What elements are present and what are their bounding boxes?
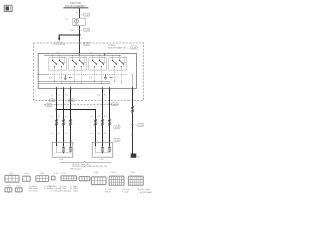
node: feed branch junction: [79, 34, 81, 36]
pin stubs at box bottom: [56, 87, 58, 89]
switch unit S3: [89, 55, 107, 70]
svg-text:B: B: [76, 12, 78, 14]
wire: feed drop: [79, 54, 81, 56]
switch unit S2: [69, 55, 87, 70]
svg-text:JUNCTION: JUNCTION: [70, 3, 82, 5]
tick on earth wire: [131, 134, 133, 136]
wire: fuse J-4 to junction node: [79, 26, 81, 35]
svg-text:5: 5: [71, 90, 72, 92]
svg-text:G : Green: G : Green: [30, 190, 38, 193]
svg-text:D-05: D-05: [111, 172, 116, 174]
dashed boundary: door harness: [44, 104, 120, 106]
contact mark: [49, 77, 51, 79]
node: power feed label (junction block): [63, 3, 88, 9]
contact arrow right: [109, 77, 113, 78]
svg-text:J-4: J-4: [65, 19, 69, 21]
splice squiggle: [131, 106, 134, 113]
svg-text:D-09: D-09: [115, 127, 119, 129]
splice squiggle: [108, 119, 111, 126]
ground (internal left): [64, 75, 67, 80]
mechanical link between switch knobs (dashed): [41, 74, 127, 76]
splice squiggle: [69, 119, 72, 126]
arrow: to other circuit: [58, 38, 61, 40]
connector C-32 (upper label): [83, 13, 89, 16]
node: shared wire junction: [56, 109, 58, 111]
switch unit S1: [49, 55, 67, 70]
wire: main switch to FR motor (G-4): [102, 88, 104, 146]
svg-text:GR-16: GR-16: [105, 191, 111, 193]
legend connector E-13 pictogram: [15, 188, 22, 192]
svg-text:D-05: D-05: [69, 100, 73, 102]
wire colour labels (lower): [51, 133, 107, 135]
svg-text:L-4: L-4: [51, 94, 54, 96]
svg-text:R-1: R-1: [104, 94, 107, 96]
wire: unit stub right: [80, 70, 82, 83]
pin numbers above motors: [57, 141, 111, 143]
splice squiggle: [101, 119, 104, 126]
connector label on earth wire: [131, 124, 134, 126]
svg-text:G-4: G-4: [97, 116, 100, 118]
splice squiggle: [55, 119, 58, 126]
svg-text:C-13: C-13: [139, 125, 143, 127]
wire: main switch to FL motor (G-1): [70, 88, 72, 146]
legend: bottom notes: [105, 188, 152, 194]
connector D-05 label (mid): [68, 99, 74, 102]
wire: unit stub left: [53, 70, 55, 81]
svg-text:BLOCK ASSEMBLY: BLOCK ASSEMBLY: [65, 5, 86, 8]
svg-text:TSB Revision: TSB Revision: [70, 169, 81, 171]
svg-text:G-4: G-4: [97, 133, 100, 135]
wire: internal drop to pin 1: [132, 75, 134, 89]
svg-text:D-05: D-05: [47, 105, 51, 107]
svg-text:D-09: D-09: [113, 104, 117, 106]
label: POWER WINDOW MAIN SWITCH / connector C-39: [108, 45, 137, 50]
wire: internal top bus: [44, 55, 121, 57]
wire: left edge tap: [38, 74, 49, 76]
svg-text:C-40: C-40: [24, 173, 29, 175]
legend connector E-10 pictogram: [5, 188, 12, 192]
svg-text:D-02: D-02: [94, 172, 99, 174]
svg-text:(L-4): (L-4): [70, 30, 75, 32]
contact mark: [89, 76, 91, 78]
wire colour labels (upper): [51, 94, 107, 96]
contact arrow left: [69, 77, 73, 78]
wire: crossover to FR motor pin 1: [57, 110, 96, 147]
power window motor C-43: [92, 142, 113, 157]
wire: main switch to FL motor (L-4): [56, 88, 58, 146]
svg-text:C-43: C-43: [115, 140, 119, 142]
svg-text:C-40: C-40: [59, 159, 64, 161]
svg-text:6: 6: [64, 90, 65, 92]
svg-text:1: 1: [81, 30, 83, 32]
wire: main switch to FR motor (R-1): [109, 88, 111, 146]
earth terminal: [131, 154, 137, 158]
svg-text:C-32: C-32: [9, 173, 14, 175]
svg-text:L-1: L-1: [58, 133, 61, 135]
page icon: [4, 5, 12, 11]
svg-text:4: 4: [81, 38, 83, 40]
ground (internal right): [104, 74, 107, 79]
svg-text:O : Orange: O : Orange: [51, 190, 60, 193]
wire: unit stub right: [100, 70, 102, 83]
wire: main switch to FL motor (L-1): [63, 88, 65, 146]
connector C-39 label (left wires): [49, 99, 54, 102]
wire: unit stub left: [73, 70, 75, 81]
svg-text:7: 7: [57, 90, 58, 92]
svg-text:4: 4: [103, 90, 104, 92]
svg-text:D-09: D-09: [130, 172, 135, 174]
component box: main switch internals: [38, 54, 136, 89]
legend connector D-09 pictogram: [109, 176, 124, 186]
svg-text:C-43: C-43: [99, 159, 104, 161]
svg-text:G-1: G-1: [65, 133, 68, 135]
wire: junction node into main switch pin 4: [79, 35, 81, 54]
svg-text:G-1: G-1: [65, 94, 68, 96]
legend connector D-05 pictogram: [91, 177, 106, 185]
wire: feed from junction block to fuse J-4: [79, 8, 81, 18]
svg-text:L-4: L-4: [90, 116, 93, 118]
svg-text:G-1: G-1: [65, 116, 68, 118]
pin numbers along box bottom: [57, 90, 135, 92]
wire: main switch pin 1 to earth joint: [132, 88, 134, 153]
legend connector C-39 pictogram: [36, 175, 49, 181]
wire: branch to other circuit: [59, 35, 79, 39]
wire colour labels (middle): [51, 116, 107, 118]
connector D-05 label: [46, 104, 52, 107]
pin 2 tick on box top: [58, 52, 60, 54]
svg-text:4: 4: [81, 15, 83, 17]
svg-text:LOCK SYSTEM: LOCK SYSTEM: [52, 44, 65, 46]
svg-text:L-1: L-1: [58, 94, 61, 96]
svg-text:R-1: R-1: [104, 116, 107, 118]
connector D-09 label (right wires): [112, 103, 118, 106]
svg-text:P: Code: P: Code: [122, 191, 129, 193]
wire: unit stub right: [60, 70, 62, 83]
splice squiggle: [62, 119, 65, 126]
connector C-43 label: [114, 139, 120, 142]
svg-text:L-1: L-1: [58, 116, 61, 118]
svg-text:L-4: L-4: [51, 116, 54, 118]
dashed enclosure: power window main switch assembly: [34, 43, 144, 101]
legend connector D-16 pictogram: [128, 176, 143, 186]
svg-text:16: 16: [137, 157, 139, 159]
bracket: motor group: [60, 161, 112, 162]
legend connector C-32 pictogram: [5, 175, 19, 182]
svg-text:C-39: C-39: [50, 100, 54, 102]
connector D-09 label (lower right): [114, 126, 120, 129]
splice squiggle: [94, 119, 97, 126]
svg-text:1: 1: [114, 189, 115, 191]
wire: unit stub left: [93, 70, 95, 81]
svg-text:2: 2: [57, 52, 58, 54]
svg-text:G-4: G-4: [97, 94, 100, 96]
legend connector D-02 pictogram: [79, 176, 90, 181]
pin 8 tick on box top: [91, 52, 93, 54]
svg-text:C-39: C-39: [40, 173, 45, 175]
wire: unit stub left: [113, 70, 115, 81]
wire: unit stub right: [120, 70, 122, 83]
svg-text:8: 8: [90, 52, 91, 54]
svg-text:L-4: L-4: [51, 133, 54, 135]
svg-text:Y : Yellow: Y : Yellow: [70, 191, 79, 193]
svg-text:L-4: L-4: [90, 133, 93, 135]
legend: wire colour code text: [30, 185, 79, 193]
svg-text:WINDOW MAIN SW ——: WINDOW MAIN SW ——: [108, 46, 131, 49]
legend: connector table: [5, 172, 144, 193]
fuse J-4: [73, 18, 85, 26]
svg-text:AC312345AB: AC312345AB: [140, 191, 152, 194]
svg-text:1: 1: [134, 90, 135, 92]
connector D-02 label: [83, 42, 89, 45]
wire: internal lower bus 2: [38, 83, 110, 85]
legend connector C-40 pictogram: [22, 176, 30, 182]
svg-text:1: 1: [136, 125, 137, 127]
svg-text:R-1: R-1: [104, 133, 107, 135]
wire: internal lower bus 1: [38, 81, 110, 83]
connector C-32 (lower label): [83, 28, 89, 31]
svg-text:W: Wire colour: W: Wire colour: [138, 188, 151, 191]
power window motor C-40: [52, 142, 73, 157]
legend connector C-13 pictogram: [51, 176, 55, 180]
svg-text:C-12: C-12: [61, 173, 66, 175]
svg-text:C-13: C-13: [54, 173, 59, 175]
legend connector C-12 pictogram: [61, 176, 77, 181]
wire: drop to unit 3: [104, 54, 106, 56]
contact mark: [59, 77, 61, 79]
switch unit S4: [109, 55, 127, 70]
svg-text:3: 3: [110, 90, 111, 92]
